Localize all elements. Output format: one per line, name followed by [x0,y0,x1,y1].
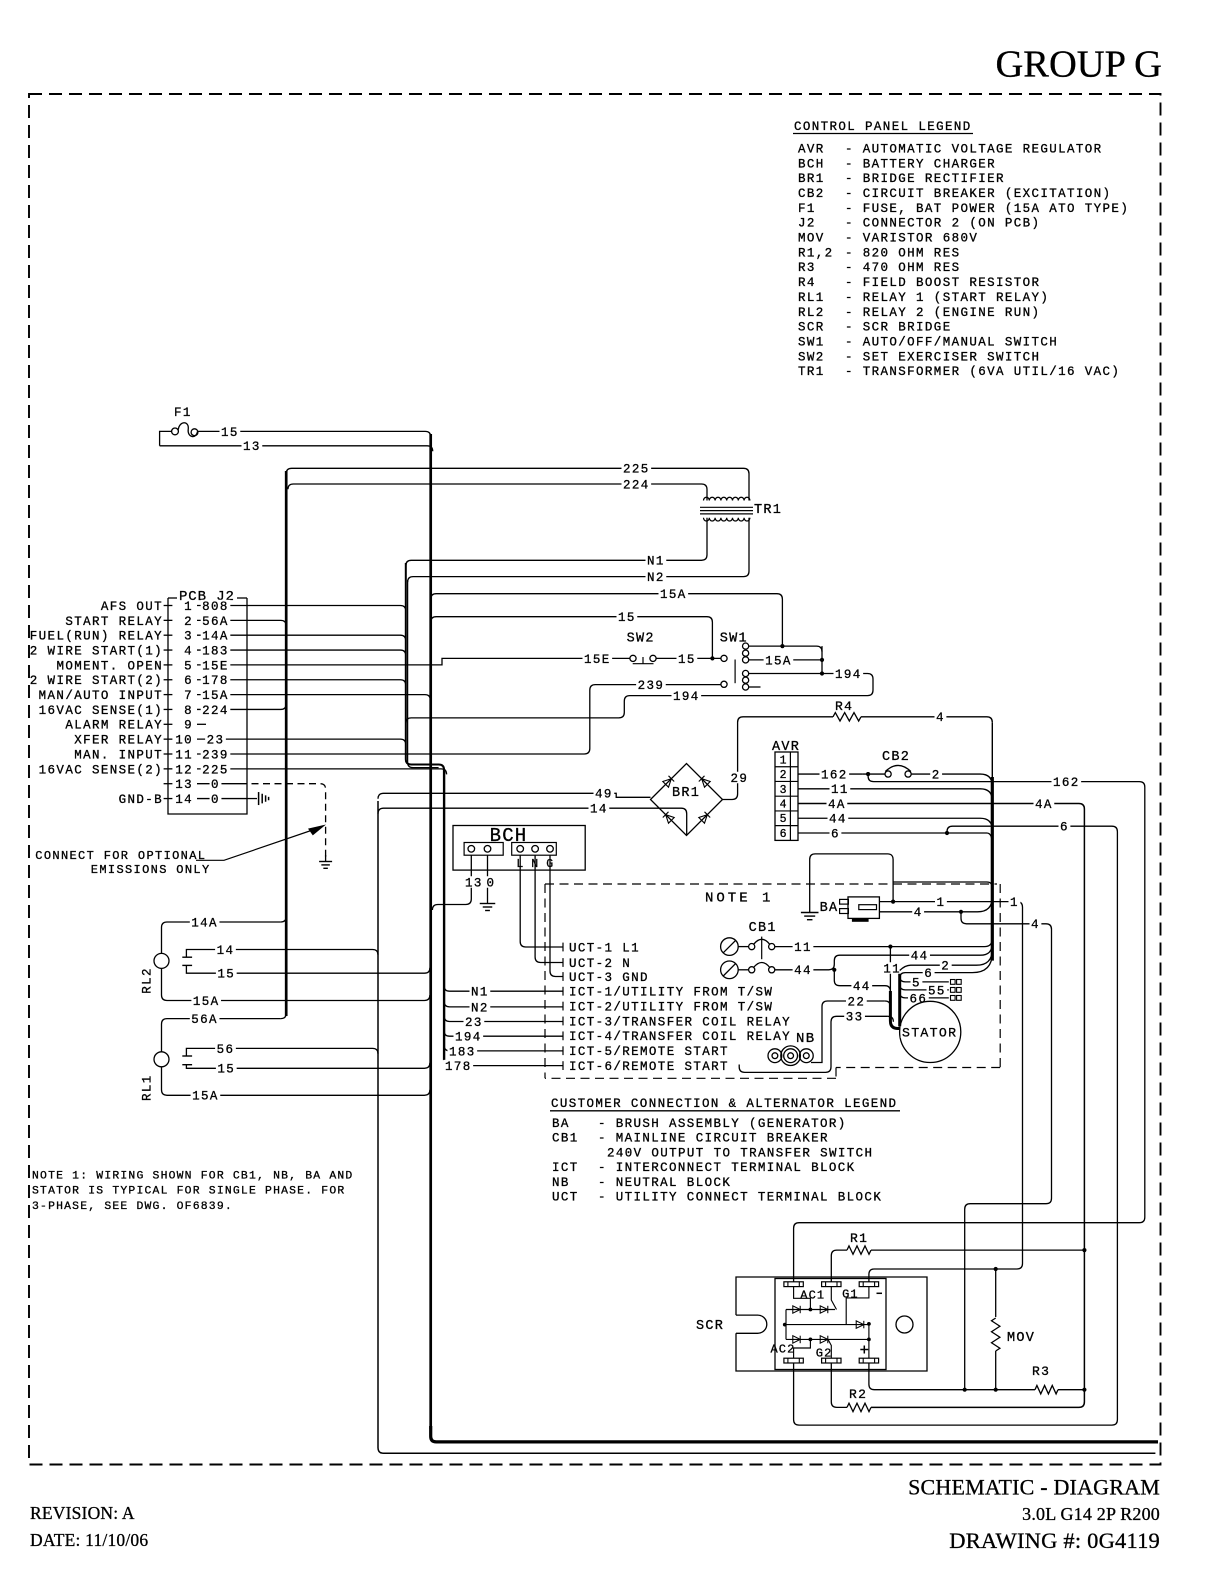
svg-text:2: 2 [941,960,950,974]
svg-text:240V OUTPUT TO TRANSFER SWITCH: 240V OUTPUT TO TRANSFER SWITCH [607,1146,873,1160]
svg-text:23: 23 [207,734,225,748]
svg-text:33: 33 [846,1011,864,1025]
svg-text:UCT-1 L1: UCT-1 L1 [569,941,640,955]
svg-text:2: 2 [932,768,941,782]
svg-text:SW2: SW2 [627,632,655,647]
svg-text:R1: R1 [850,1231,868,1246]
svg-text:TR1: TR1 [798,365,825,379]
svg-text:6: 6 [780,828,787,841]
svg-text:4A: 4A [1035,798,1053,812]
svg-text:NOTE 1: NOTE 1 [705,890,773,906]
svg-text:239: 239 [638,679,665,693]
svg-text:15A: 15A [660,588,687,602]
svg-text:15A: 15A [202,689,229,703]
svg-text:2 WIRE START(1): 2 WIRE START(1) [30,644,163,658]
svg-text:- FIELD BOOST RESISTOR: - FIELD BOOST RESISTOR [845,276,1040,290]
svg-text:- INTERCONNECT TERMINAL BLOCK: - INTERCONNECT TERMINAL BLOCK [598,1161,856,1175]
svg-text:CB2: CB2 [882,750,910,765]
svg-text:R3: R3 [798,261,816,275]
svg-text:CUSTOMER CONNECTION & ALTERNAT: CUSTOMER CONNECTION & ALTERNATOR LEGEND [551,1097,897,1111]
svg-text:9: 9 [184,719,193,733]
svg-text:15: 15 [217,1063,235,1077]
svg-text:RL1: RL1 [141,1074,155,1101]
svg-text:BA: BA [552,1117,570,1131]
svg-text:13: 13 [465,876,483,890]
svg-text:NB: NB [552,1176,570,1190]
svg-text:- RELAY 2 (ENGINE RUN): - RELAY 2 (ENGINE RUN) [845,306,1040,320]
svg-text:CB1: CB1 [552,1132,579,1146]
svg-text:56: 56 [217,1043,235,1057]
svg-text:178: 178 [445,1060,472,1074]
svg-text:R4: R4 [835,699,853,714]
svg-text:AC2: AC2 [771,1343,796,1357]
svg-text:15: 15 [221,426,239,440]
svg-text:225: 225 [202,763,229,777]
svg-text:14A: 14A [202,630,229,644]
svg-text:178: 178 [202,674,229,688]
svg-text:G1: G1 [842,1288,859,1302]
svg-text:49: 49 [595,788,613,802]
svg-text:183: 183 [449,1045,476,1059]
svg-text:11: 11 [175,748,193,762]
svg-text:2: 2 [780,769,787,782]
svg-text:NB: NB [796,1031,815,1047]
svg-text:194: 194 [673,690,700,704]
svg-text:CB1: CB1 [749,921,777,936]
svg-text:3.0L G14 2P R200: 3.0L G14 2P R200 [1022,1504,1160,1524]
svg-text:5: 5 [912,976,921,990]
svg-text:AFS OUT: AFS OUT [101,600,163,614]
svg-text:RL2: RL2 [141,967,155,994]
svg-text:225: 225 [623,463,650,477]
svg-text:CB2: CB2 [798,187,825,201]
svg-text:ICT: ICT [552,1161,579,1175]
svg-text:55: 55 [928,984,946,998]
svg-text:1: 1 [780,754,787,767]
svg-text:6: 6 [184,674,193,688]
svg-text:1: 1 [184,600,193,614]
svg-text:11: 11 [883,962,901,976]
svg-text:0: 0 [211,793,220,807]
svg-text:44: 44 [829,813,847,827]
svg-text:4: 4 [936,711,945,725]
svg-text:6: 6 [1060,821,1069,835]
svg-text:15: 15 [678,653,696,667]
svg-text:4A: 4A [828,798,846,812]
svg-text:UCT-2 N: UCT-2 N [569,957,631,971]
svg-text:- RELAY 1 (START RELAY): - RELAY 1 (START RELAY) [845,291,1049,305]
svg-text:- BRUSH ASSEMBLY (GENERATOR): - BRUSH ASSEMBLY (GENERATOR) [598,1117,847,1131]
svg-text:ICT-2/UTILITY FROM T/SW: ICT-2/UTILITY FROM T/SW [569,1000,773,1014]
svg-text:44: 44 [794,964,812,978]
svg-text:SW1: SW1 [798,335,825,349]
svg-text:16VAC SENSE(2): 16VAC SENSE(2) [39,763,163,777]
svg-text:REVISION: A: REVISION: A [30,1503,135,1523]
svg-text:- CIRCUIT BREAKER (EXCITATION): - CIRCUIT BREAKER (EXCITATION) [845,187,1111,201]
svg-text:AVR: AVR [798,142,825,156]
svg-text:ICT-1/UTILITY FROM T/SW: ICT-1/UTILITY FROM T/SW [569,986,773,1000]
svg-text:CONTROL PANEL LEGEND: CONTROL PANEL LEGEND [794,120,972,134]
svg-text:194: 194 [835,668,862,682]
svg-text:ICT-6/REMOTE START: ICT-6/REMOTE START [569,1060,729,1074]
svg-text:R4: R4 [798,276,816,290]
svg-text:N2: N2 [471,1001,489,1015]
svg-text:J2: J2 [798,217,816,231]
svg-text:15A: 15A [193,995,220,1009]
svg-text:- BRIDGE RECTIFIER: - BRIDGE RECTIFIER [845,172,1005,186]
svg-text:15A: 15A [765,654,792,668]
svg-text:2 WIRE START(2): 2 WIRE START(2) [30,674,163,688]
svg-text:- MAINLINE CIRCUIT BREAKER: - MAINLINE CIRCUIT BREAKER [598,1132,829,1146]
svg-text:AC1: AC1 [800,1289,825,1303]
svg-text:3: 3 [780,784,787,797]
svg-text:AVR: AVR [772,740,800,755]
svg-text:44: 44 [911,950,929,964]
svg-text:ICT-4/TRANSFER COIL RELAY: ICT-4/TRANSFER COIL RELAY [569,1030,791,1044]
svg-text:162: 162 [1053,776,1080,790]
svg-text:- FUSE, BAT POWER (15A ATO TYP: - FUSE, BAT POWER (15A ATO TYPE) [845,202,1129,216]
svg-text:BR1: BR1 [672,786,700,801]
svg-text:6: 6 [831,827,840,841]
svg-text:MAN. INPUT: MAN. INPUT [74,748,163,762]
svg-text:4: 4 [184,644,193,658]
svg-text:5: 5 [780,813,787,826]
svg-text:14: 14 [217,944,235,958]
svg-text:2: 2 [184,615,193,629]
svg-text:SCHEMATIC - DIAGRAM: SCHEMATIC - DIAGRAM [908,1475,1160,1500]
svg-text:44: 44 [853,980,871,994]
svg-text:56A: 56A [191,1013,218,1027]
svg-text:224: 224 [202,704,229,718]
svg-text:11: 11 [794,941,812,955]
svg-text:BR1: BR1 [798,172,825,186]
svg-text:15: 15 [217,968,235,982]
svg-text:13: 13 [175,778,193,792]
svg-text:- 820 OHM RES: - 820 OHM RES [845,246,960,260]
svg-text:N2: N2 [647,571,665,585]
svg-text:1: 1 [1010,896,1019,910]
svg-text:13: 13 [243,440,261,454]
svg-text:G2: G2 [816,1347,833,1361]
svg-text:7: 7 [184,689,193,703]
svg-text:12: 12 [175,763,193,777]
svg-text:- BATTERY CHARGER: - BATTERY CHARGER [845,157,996,171]
svg-text:239: 239 [202,748,229,762]
svg-text:START RELAY: START RELAY [65,615,163,629]
svg-text:F1: F1 [798,202,816,216]
svg-text:15E: 15E [584,653,611,667]
svg-text:183: 183 [202,644,229,658]
svg-text:RL2: RL2 [798,306,825,320]
svg-text:4: 4 [914,906,923,920]
svg-text:- TRANSFORMER (6VA UTIL/16 VAC: - TRANSFORMER (6VA UTIL/16 VAC) [845,365,1120,379]
svg-text:14A: 14A [191,916,218,930]
svg-text:14: 14 [590,803,608,817]
svg-text:MOV: MOV [798,232,825,246]
svg-text:5: 5 [184,659,193,673]
svg-text:0: 0 [211,778,220,792]
svg-text:4: 4 [780,798,787,811]
svg-text:N1: N1 [471,986,489,1000]
svg-text:EMISSIONS ONLY: EMISSIONS ONLY [91,863,211,877]
svg-text:MOMENT. OPEN: MOMENT. OPEN [56,659,163,673]
svg-text:STATOR: STATOR [902,1026,957,1041]
svg-text:FUEL(RUN) RELAY: FUEL(RUN) RELAY [30,630,163,644]
svg-text:ALARM RELAY: ALARM RELAY [65,719,163,733]
svg-text:GROUP G: GROUP G [995,44,1162,86]
svg-text:- NEUTRAL BLOCK: - NEUTRAL BLOCK [598,1176,731,1190]
svg-text:16VAC SENSE(1): 16VAC SENSE(1) [39,704,163,718]
svg-text:15A: 15A [192,1090,219,1104]
svg-text:R1,2: R1,2 [798,246,834,260]
svg-text:R3: R3 [1032,1364,1050,1379]
svg-text:14: 14 [175,793,193,807]
svg-text:STATOR IS TYPICAL FOR SINGLE P: STATOR IS TYPICAL FOR SINGLE PHASE. FOR [32,1186,345,1198]
svg-text:194: 194 [455,1031,482,1045]
svg-text:TR1: TR1 [754,503,782,518]
svg-text:SCR: SCR [798,321,825,335]
svg-text:224: 224 [623,478,650,492]
svg-text:DRAWING #: 0G4119: DRAWING #: 0G4119 [949,1528,1160,1553]
svg-text:808: 808 [202,600,229,614]
svg-text:6: 6 [924,967,933,981]
svg-text:15E: 15E [202,659,229,673]
svg-text:23: 23 [465,1016,483,1030]
svg-text:MAN/AUTO INPUT: MAN/AUTO INPUT [39,689,163,703]
svg-text:- 470 OHM RES: - 470 OHM RES [845,261,960,275]
svg-text:BA: BA [820,901,839,916]
svg-text:- SCR BRIDGE: - SCR BRIDGE [845,321,952,335]
svg-text:ICT-3/TRANSFER COIL RELAY: ICT-3/TRANSFER COIL RELAY [569,1015,791,1029]
svg-text:SW2: SW2 [798,350,825,364]
svg-text:162: 162 [821,768,848,782]
svg-text:- SET EXERCISER SWITCH: - SET EXERCISER SWITCH [845,350,1040,364]
svg-text:MOV: MOV [1007,1331,1035,1346]
svg-text:NOTE 1: WIRING SHOWN FOR CB1,: NOTE 1: WIRING SHOWN FOR CB1, NB, BA AND [32,1170,353,1182]
svg-text:- AUTOMATIC VOLTAGE REGULATOR: - AUTOMATIC VOLTAGE REGULATOR [845,142,1103,156]
svg-text:XFER RELAY: XFER RELAY [74,734,163,748]
svg-text:1: 1 [937,896,946,910]
svg-text:UCT: UCT [552,1191,579,1205]
svg-text:11: 11 [831,783,849,797]
svg-text:UCT-3 GND: UCT-3 GND [569,971,649,985]
svg-text:8: 8 [184,704,193,718]
svg-text:10: 10 [175,734,193,748]
svg-text:BCH: BCH [490,825,528,847]
svg-text:ICT-5/REMOTE START: ICT-5/REMOTE START [569,1045,729,1059]
svg-text:3-PHASE, SEE DWG. OF6839.: 3-PHASE, SEE DWG. OF6839. [32,1201,233,1213]
svg-text:RL1: RL1 [798,291,825,305]
svg-text:CONNECT FOR OPTIONAL: CONNECT FOR OPTIONAL [35,849,206,863]
svg-text:N1: N1 [647,555,665,569]
svg-text:- AUTO/OFF/MANUAL SWITCH: - AUTO/OFF/MANUAL SWITCH [845,335,1058,349]
svg-text:4: 4 [1031,918,1040,932]
svg-text:GND-B: GND-B [119,793,163,807]
svg-text:- CONNECTOR 2 (ON PCB): - CONNECTOR 2 (ON PCB) [845,217,1040,231]
svg-text:29: 29 [731,772,749,786]
svg-text:- UTILITY CONNECT TERMINAL BLO: - UTILITY CONNECT TERMINAL BLOCK [598,1191,882,1205]
svg-text:0: 0 [487,876,496,890]
svg-text:22: 22 [848,995,866,1009]
svg-text:F1: F1 [174,406,192,420]
svg-text:SCR: SCR [696,1319,724,1334]
svg-text:3: 3 [184,630,193,644]
svg-text:- VARISTOR 680V: - VARISTOR 680V [845,232,978,246]
svg-text:DATE: 11/10/06: DATE: 11/10/06 [30,1530,148,1550]
svg-text:15: 15 [618,611,636,625]
svg-text:R2: R2 [849,1387,867,1402]
svg-text:BCH: BCH [798,157,825,171]
svg-text:56A: 56A [202,615,229,629]
